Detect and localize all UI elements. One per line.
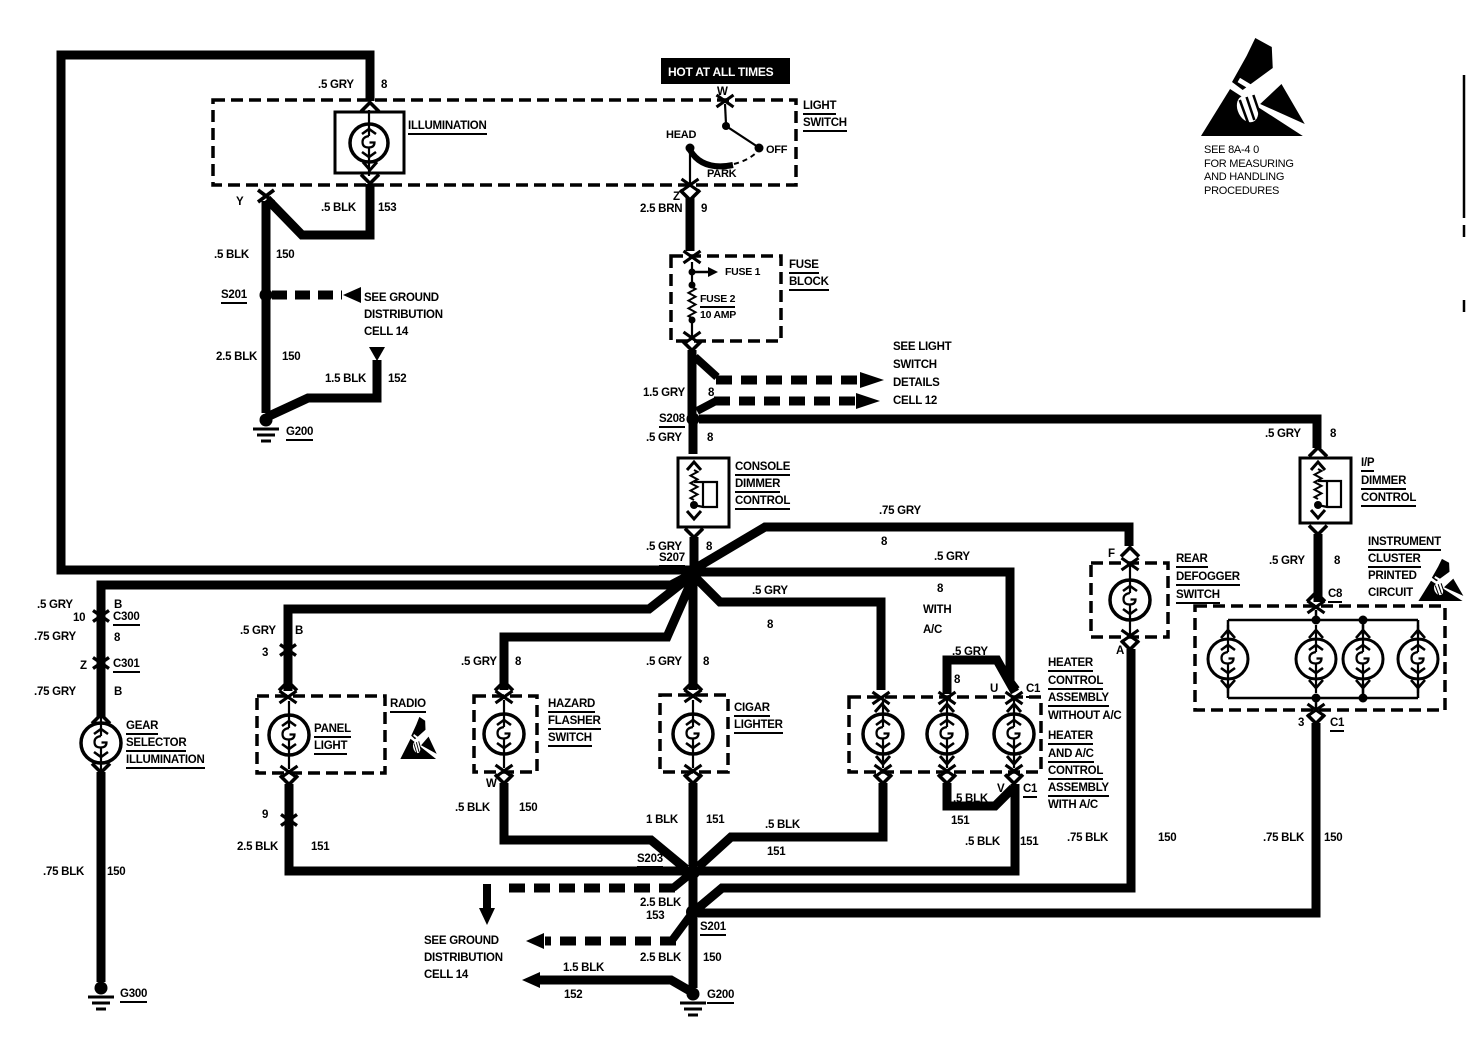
junction S207 — [686, 565, 700, 579]
label 1 BLK — [646, 814, 678, 826]
junction S201 upper — [260, 289, 273, 302]
terminal F on defogger box top — [1122, 558, 1139, 570]
label terminal B — [295, 625, 303, 637]
chevron terminal A below defogger box — [1121, 641, 1139, 650]
switch pivot contact — [722, 122, 730, 130]
lamp: heater control middle — [946, 700, 948, 768]
label GEAR — [126, 720, 158, 735]
label .5 GRY — [318, 79, 354, 91]
chevron inside I/P dimmer top — [1311, 462, 1325, 470]
chevron above cluster lamp 2 — [1309, 630, 1323, 638]
label terminal 3 — [262, 647, 268, 659]
label .5 GRY — [646, 541, 682, 553]
chevron below cluster lamp 1 — [1221, 680, 1235, 688]
label circuit 151 — [1020, 836, 1038, 848]
wire .5 BLK 153 from illumination lamp to Y — [267, 184, 370, 235]
label SEE GROUND — [424, 935, 499, 947]
label WITHOUT A/C — [1048, 710, 1121, 722]
wire .5 GRY B from S207 to gear selector illumination — [101, 574, 692, 717]
chevron above cluster lamp 4 — [1411, 630, 1425, 638]
label CONTROL — [735, 495, 790, 510]
lamp: hazard flasher switch illumination — [503, 700, 505, 768]
terminal on cigar lighter box bottom — [685, 765, 702, 777]
cluster bottom bus junction at lamp 2 — [1312, 694, 1321, 703]
label splice S201 — [221, 289, 247, 304]
fuse 2 bottom junction — [689, 317, 696, 324]
fuse block box — [671, 256, 781, 341]
wire from terminal W to switch pivot — [725, 104, 726, 124]
connector C301 on gear selector wire — [93, 658, 109, 669]
label DIMMER — [735, 478, 780, 493]
instrument cluster printed circuit box — [1195, 606, 1445, 710]
lamp: heater control left — [882, 700, 884, 768]
chevron C8 above cluster box — [1307, 593, 1325, 602]
label BLOCK — [789, 276, 829, 291]
label circuit 8 — [1334, 555, 1340, 567]
label connector C1 — [1026, 683, 1040, 698]
label .5 BLK — [965, 836, 1000, 848]
connector C300 on gear selector wire — [93, 611, 109, 622]
label CONTROL — [1048, 675, 1103, 690]
label LIGHT — [314, 740, 347, 755]
label 1.5 GRY — [643, 387, 685, 399]
label CONSOLE — [735, 461, 790, 476]
label circuit 8 — [515, 656, 521, 668]
label .5 GRY — [461, 656, 497, 668]
connector chevron below I/P dimmer control — [1309, 526, 1327, 535]
label circuit 8 — [708, 387, 714, 399]
arrow to FUSE 1 — [695, 271, 708, 274]
label circuit 8 — [954, 674, 960, 686]
chevron above cigar lighter lamp — [684, 682, 702, 691]
chevron above cluster lamp 1 — [1221, 630, 1235, 638]
chevron below cluster lamp 4 — [1411, 680, 1425, 688]
lamp: rear defogger switch illumination — [1129, 566, 1131, 634]
label circuit 8 — [706, 541, 712, 553]
chevron below heater box right V — [1005, 775, 1023, 784]
label 1.5 BLK — [563, 962, 604, 974]
rear defogger switch box — [1091, 563, 1168, 637]
label terminal W — [486, 778, 497, 790]
label splice S207 — [659, 552, 685, 567]
junction S203 — [686, 865, 700, 879]
label CELL 14 — [424, 969, 468, 981]
label FUSE 1 — [725, 267, 760, 278]
label DISTRIBUTION — [364, 309, 443, 321]
connector chevron below illumination lamp inside box — [363, 162, 377, 170]
note PROCEDURES — [1204, 186, 1279, 198]
chevron below heater box middle — [938, 775, 956, 784]
connector chevron below terminal Z — [680, 190, 700, 200]
note A/C — [923, 624, 942, 636]
ground G300 — [95, 982, 108, 995]
label HOT AT ALL TIMES — [668, 66, 773, 79]
label 2.5 BLK — [640, 897, 681, 909]
label SEE LIGHT — [893, 341, 951, 353]
connector terminal 9 on panel light ground wire — [281, 815, 297, 826]
arrowhead left on S201 ground distribution wire — [526, 933, 544, 949]
label CELL 12 — [893, 395, 937, 407]
label PARK — [707, 169, 736, 181]
label splice S203 — [637, 853, 663, 868]
terminal W of light switch — [717, 95, 734, 107]
connector chevron above I/P dimmer control — [1309, 448, 1327, 457]
note WITH — [923, 604, 951, 616]
label OFF — [766, 145, 787, 157]
dashed wire S203 to ground distribution — [502, 884, 675, 893]
label HEATER — [1048, 657, 1093, 672]
terminal V C1 on heater box bottom right lamp — [1006, 765, 1023, 777]
terminal on heater box top left lamp — [873, 692, 890, 704]
lamp: gear selector illumination — [100, 709, 102, 777]
label circuit 150 — [519, 802, 537, 814]
terminal on heater box bottom left lamp — [875, 765, 892, 777]
lead corner of ground distribution dashed wire — [487, 888, 491, 908]
arrowhead down to see ground distribution — [479, 908, 495, 925]
fuse block bottom terminal — [684, 332, 701, 344]
label terminal B — [114, 686, 122, 698]
fuse 2 element — [689, 287, 696, 318]
chevron below cluster box terminal 3 — [1307, 715, 1325, 724]
esd symbol beside instrument cluster — [1418, 559, 1463, 601]
label connector C1 — [1330, 717, 1344, 732]
chevron above heater right lamp inside — [1007, 704, 1021, 712]
wire .5 BLK 150 from Y through S201 to G200 — [262, 201, 271, 413]
wire .75 BLK 150 from gear selector lamp to G300 — [97, 772, 106, 982]
label terminal A — [1116, 645, 1124, 657]
label 2.5 BLK — [640, 952, 681, 964]
chevron above heater left lamp inside — [875, 704, 889, 712]
dashed wire see light switch details lower — [714, 397, 856, 406]
dashed wire S201 to ground distribution cell 14 — [545, 937, 676, 946]
console dimmer rheostat element — [691, 470, 698, 500]
terminal 3 C1 on cluster box bottom — [1308, 704, 1325, 716]
esd symbol beside radio — [400, 717, 437, 759]
label INSTRUMENT — [1368, 536, 1441, 551]
wire .5 GRY 8 from S207 to cigar lighter — [689, 576, 698, 690]
label terminal W — [717, 86, 728, 98]
wire from fuse 2 to fuse block bottom terminal — [691, 322, 693, 336]
chevron above hazard flasher lamp — [495, 682, 513, 691]
label .75 GRY — [879, 505, 921, 517]
cluster riser lamp1 to bottom bus — [1227, 683, 1230, 698]
console dimmer wiper contact — [694, 482, 717, 507]
label HEATER — [1048, 730, 1093, 745]
label circuit 153 — [378, 202, 396, 214]
label DEFOGGER — [1176, 571, 1240, 586]
label connector C301 — [113, 658, 140, 673]
terminal on panel light box bottom — [281, 766, 298, 778]
cluster riser lamp3 to bottom bus — [1362, 683, 1365, 698]
label .5 GRY — [646, 432, 682, 444]
label terminal F — [1108, 548, 1115, 560]
wire .5 GRY 8 from S207 to hazard flasher switch — [504, 578, 693, 690]
junction S208 — [687, 413, 700, 426]
wire .5 GRY 8 from S208 to I/P dimmer control — [699, 419, 1317, 448]
label circuit 150 — [276, 249, 294, 261]
chevron below hazard box terminal W — [495, 775, 513, 784]
lamp: instrument cluster 1 — [1227, 625, 1229, 693]
note AND HANDLING — [1204, 172, 1284, 184]
label FUSE 2 — [700, 294, 735, 308]
wire .75 GRY 8 from S207 to rear defogger switch F — [696, 527, 1129, 568]
fuse 1 tap junction — [689, 269, 696, 276]
wire .5 BLK 151 heater V to S203 — [698, 784, 1015, 871]
panel light box — [257, 696, 385, 773]
label 2.5 BLK — [237, 841, 278, 853]
label circuit 152 — [388, 373, 406, 385]
label AND A/C — [1048, 748, 1094, 763]
label terminal 9 — [262, 809, 268, 821]
label CIRCUIT — [1368, 587, 1413, 599]
connector chevron below console dimmer control — [685, 529, 703, 538]
cluster internal top bus — [1228, 619, 1418, 622]
label 2.5 BLK — [216, 351, 257, 363]
label circuit 150 — [1324, 832, 1342, 844]
label circuit 8 — [707, 432, 713, 444]
label circuit 151 — [311, 841, 329, 853]
label .75 BLK — [1067, 832, 1108, 844]
label terminal Z — [80, 660, 87, 672]
label terminal 3 — [1298, 717, 1304, 729]
label terminal U — [990, 683, 998, 695]
label ASSEMBLY — [1048, 692, 1109, 707]
wire .5 BLK 150 from hazard flasher to S203 — [504, 783, 686, 869]
label FLASHER — [548, 715, 601, 730]
label circuit 150 — [1158, 832, 1176, 844]
label .5 GRY — [934, 551, 970, 563]
label circuit 151 — [951, 815, 969, 827]
label connector C1 — [1023, 783, 1037, 798]
terminal on hazard box top — [496, 691, 513, 703]
dashed wire S201 to see ground distribution cell 14 — [272, 291, 342, 300]
chevron below heater middle lamp inside — [940, 756, 954, 764]
label circuit 8 — [114, 632, 120, 644]
lamp: radio panel light — [288, 701, 290, 769]
cluster internal bottom bus — [1228, 697, 1418, 700]
label circuit 151 — [767, 846, 785, 858]
terminal on heater box top middle lamp — [939, 692, 956, 704]
label circuit 151 — [706, 814, 724, 826]
cluster drop to lamp 1 — [1227, 620, 1230, 635]
label PANEL — [314, 723, 351, 738]
label circuit 8 — [703, 656, 709, 668]
arrowhead down on upper 152 wire — [369, 347, 385, 361]
note SEE 8A-4 0 — [1204, 145, 1259, 157]
label circuit 8 — [381, 79, 387, 91]
arrowhead to light switch details lower — [856, 393, 880, 409]
label HAZARD — [548, 698, 595, 713]
chevron above panel light lamp — [279, 682, 297, 691]
label circuit 150 — [703, 952, 721, 964]
terminal Z of light switch — [682, 179, 699, 191]
connector Y — [258, 190, 274, 202]
lamp: instrument cluster 3 — [1362, 625, 1364, 693]
ground G200 upper — [260, 414, 273, 427]
wire 1.5 GRY 8 from fuse block to S208 — [688, 350, 697, 419]
chevron below panel light box — [280, 776, 298, 785]
wire 1.5 BLK 152 into G200 upper — [267, 360, 377, 417]
label circuit 150 — [107, 866, 125, 878]
wire inside fuse block to fuse 1 tap — [691, 262, 693, 284]
cluster riser lamp4 to bottom bus — [1417, 683, 1420, 698]
cluster bottom bus junction at lamp 3 — [1359, 694, 1368, 703]
OFF position contact — [755, 144, 764, 153]
label circuit 9 — [701, 203, 707, 215]
label RADIO — [390, 698, 426, 713]
terminal C8 on cluster box top — [1308, 601, 1325, 613]
wire .5 GRY 8 outer loop from illumination lamp to S207 — [61, 55, 690, 570]
chevron below heater left lamp inside — [876, 756, 890, 764]
label circuit 153 — [646, 910, 664, 922]
label terminal B — [114, 599, 122, 611]
label DISTRIBUTION — [424, 952, 503, 964]
light switch assembly box — [213, 100, 796, 185]
label PRINTED — [1368, 570, 1417, 582]
label SWITCH — [803, 117, 847, 132]
label circuit 8 — [767, 619, 773, 631]
label .5 BLK — [953, 793, 988, 805]
label .5 GRY — [752, 585, 788, 597]
wire .5 GRY 8 from S207 to heater control U — [699, 572, 1016, 690]
wire .5 GRY 8 from S207 to panel light — [288, 576, 691, 691]
terminal on cigar lighter box top — [685, 690, 702, 702]
page edge line — [1463, 75, 1466, 312]
label CONTROL — [1361, 492, 1416, 507]
label ILLUMINATION — [408, 120, 487, 135]
I/P dimmer control box — [1300, 458, 1351, 523]
label DIMMER — [1361, 475, 1406, 490]
wire 1 BLK 151 from cigar lighter to S203 — [689, 783, 698, 868]
note FOR MEASURING — [1204, 159, 1294, 171]
chevron above cluster lamp 3 — [1356, 630, 1370, 638]
esd handling warning symbol — [1201, 38, 1306, 136]
terminal A on defogger box bottom — [1122, 630, 1139, 642]
label terminal V — [997, 783, 1004, 795]
label splice S201 — [700, 921, 726, 936]
I/P dimmer output junction — [1314, 501, 1322, 509]
label 2.5 BRN — [640, 203, 682, 215]
label ground G300 — [120, 988, 147, 1003]
label SEE GROUND — [364, 292, 439, 304]
label ground G200 — [707, 989, 734, 1004]
wire .5 GRY 8 jumper from heater middle lamp to U with A/C — [947, 660, 1015, 694]
wire 2.5 BLK 151 from panel light to S203 — [289, 784, 688, 871]
label CONTROL — [1048, 765, 1103, 780]
wire .5 GRY 8 from I/P dimmer to instrument cluster C8 — [1314, 534, 1323, 602]
hazard flasher switch box — [474, 696, 537, 772]
wire 2.5 BLK 150 from S201 to G200 — [689, 917, 698, 988]
chevron terminal F above defogger box — [1121, 548, 1139, 557]
wire .5 BLK 151 heater middle lamp to V — [947, 783, 1013, 806]
label connector C8 — [1328, 588, 1342, 603]
label HEAD — [666, 130, 696, 142]
label 10 AMP — [700, 310, 736, 321]
label .75 BLK — [1263, 832, 1304, 844]
branch to light switch details dashed lead-in — [695, 357, 717, 377]
label .5 BLK — [765, 819, 800, 831]
chevron inside console dimmer bottom — [687, 511, 701, 519]
label .5 GRY — [1269, 555, 1305, 567]
cluster drop to lamp 4 — [1417, 620, 1420, 635]
chevron below gear selector lamp — [92, 764, 110, 773]
wire .5 GRY 8 from S207 to heater control left lamp — [695, 577, 881, 690]
connector terminal 3 on panel light feed wire — [280, 645, 296, 656]
cluster top bus junction at lamp 3 — [1359, 616, 1368, 625]
terminal on panel light box top — [280, 691, 297, 703]
chevron above heater middle lamp inside — [940, 704, 954, 712]
dashed arc PARK to OFF — [734, 152, 757, 164]
label LIGHTER — [734, 719, 783, 734]
wire .75 BLK 150 from defogger A to S201 — [697, 649, 1131, 909]
branch from S208 to details dashed lead-in — [697, 401, 716, 411]
label .5 GRY — [1265, 428, 1301, 440]
label .5 GRY — [952, 646, 988, 658]
label WITH A/C — [1048, 799, 1098, 811]
wire .75 BLK 150 from cluster to S201 — [698, 723, 1316, 913]
label circuit 150 — [282, 351, 300, 363]
chevron inside I/P dimmer bottom — [1311, 510, 1325, 518]
label FUSE — [789, 259, 819, 274]
I/P dimmer rheostat element — [1315, 469, 1322, 499]
chevron above gear selector lamp — [92, 715, 110, 724]
label circuit 8 — [881, 536, 887, 548]
wire .5 GRY 8 from S208 to console dimmer control — [689, 423, 698, 454]
connector chevron at light switch box edge below illumination lamp — [361, 175, 379, 184]
label .5 BLK — [214, 249, 249, 261]
terminal on heater box bottom middle lamp — [939, 765, 956, 777]
label .5 BLK — [321, 202, 356, 214]
label SWITCH — [1176, 589, 1220, 604]
label .5 GRY — [240, 625, 276, 637]
connector chevron at light switch box edge above illumination lamp — [361, 103, 379, 112]
chevron below cigar lighter box — [684, 775, 702, 784]
HEAD position contact — [686, 144, 695, 153]
label I/P — [1361, 457, 1374, 472]
wire 2.5 BLK 153 from S203 to S201 — [689, 877, 698, 907]
label .5 BLK — [455, 802, 490, 814]
switch rotor arc HEAD to PARK — [690, 150, 733, 166]
terminal U C1 on heater box top right lamp — [1006, 692, 1023, 704]
I/P dimmer wiper contact — [1318, 481, 1341, 507]
console dimmer output junction — [690, 501, 698, 509]
label .75 GRY — [34, 631, 76, 643]
label circuit 8 — [937, 583, 943, 595]
label CLUSTER — [1368, 553, 1421, 568]
dashed wire see light switch details upper — [716, 376, 860, 385]
label .5 GRY — [37, 599, 73, 611]
illumination lamp housing box — [335, 112, 404, 173]
label DETAILS — [893, 377, 940, 389]
arrowhead left on upper S201 dashed wire — [343, 287, 361, 303]
label terminal Y — [236, 196, 243, 208]
label SELECTOR — [126, 737, 186, 752]
lead from S201 to ground distribution dashed wire — [673, 916, 690, 939]
fuse block top terminal — [684, 251, 701, 263]
wire .5 BLK 151 heater left lamp to S203 — [698, 783, 883, 867]
label .75 GRY — [34, 686, 76, 698]
switch wiper to OFF position — [726, 126, 758, 147]
lamp: cigar lighter illumination — [692, 700, 694, 768]
wire 1.5 BLK 152 into G200 — [540, 980, 690, 991]
lead from S203 to ground distribution dashed wire — [673, 875, 689, 888]
label SWITCH — [893, 359, 937, 371]
label CIGAR — [734, 702, 770, 717]
label terminal 10 — [73, 612, 85, 624]
label LIGHT — [803, 100, 836, 115]
label .5 GRY — [646, 656, 682, 668]
label circuit 8 — [1330, 428, 1336, 440]
